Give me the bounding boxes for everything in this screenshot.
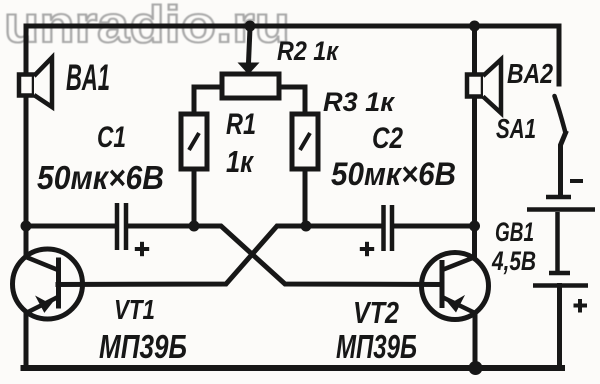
wire: R1 bottom lead (192, 169, 197, 226)
wire: C1 to R1-bottom node (129, 224, 195, 229)
wire: BA2 vertical (top rail to VT2 collector) (472, 26, 477, 257)
node: R1 bottom (189, 221, 200, 232)
battery plus sign (574, 299, 588, 313)
node: R3 bottom (301, 221, 312, 232)
svg-text:BA1: BA1 (66, 57, 110, 98)
svg-text:МП39Б: МП39Б (99, 328, 187, 365)
switch SA1 lever (555, 96, 566, 196)
transistor VT1 (13, 249, 83, 319)
svg-text:50мк×6В: 50мк×6В (331, 156, 456, 192)
capacitor C2 plus sign (360, 242, 374, 256)
resistor R1 body (181, 114, 207, 169)
wire: mid-left from rail to C1 (26, 224, 114, 229)
svg-text:SA1: SA1 (496, 113, 536, 144)
wire: battery positive riser to bottom rail (557, 286, 562, 369)
svg-text:C2: C2 (372, 122, 403, 155)
transistor VT2 (422, 253, 489, 320)
svg-text:VT2: VT2 (353, 295, 399, 330)
svg-text:4,5B: 4,5B (491, 246, 536, 276)
svg-text:R1: R1 (226, 108, 256, 141)
node: top rail to R2 wiper (245, 21, 256, 32)
resistor R3 body (292, 114, 318, 169)
svg-text:GB1: GB1 (495, 217, 534, 247)
node: left rail / C1 (21, 221, 32, 232)
wire: bottom rail (24, 365, 563, 371)
wire: R3-bottom node diagonal to VT1 base (58, 226, 306, 285)
potentiometer R2 wiper arrowhead (238, 63, 260, 75)
wire: R2 wiper stem from top rail (249, 28, 251, 63)
wire: R2 right lead down to R3 (279, 87, 305, 114)
svg-text:R3 1к: R3 1к (323, 87, 395, 117)
potentiometer R2 body (222, 74, 279, 98)
wire: C2 to BA2/VT2-collector rail (394, 224, 475, 229)
wire: R2 left lead down to R1 (194, 87, 222, 114)
speaker BA1 (19, 58, 52, 108)
speaker BA2 (467, 60, 501, 114)
svg-text:C1: C1 (97, 121, 126, 154)
node: VT2 emitter / bottom rail (469, 361, 483, 375)
svg-text:МП39Б: МП39Б (336, 328, 417, 365)
wire: VT2 emitter drop to bottom rail (473, 313, 478, 368)
wire: left rail + top rail + right drop to switch (26, 26, 559, 257)
wire: R1-bottom node diagonal to VT2 base (194, 226, 442, 285)
capacitor C1 plates (117, 203, 126, 250)
battery GB1 plates (527, 197, 595, 286)
svg-text:BA2: BA2 (507, 58, 553, 89)
svg-text:50мк×6В: 50мк×6В (37, 159, 164, 196)
capacitor C1 plus sign (135, 242, 149, 256)
capacitor C2 plates (384, 205, 393, 251)
battery minus sign (570, 179, 583, 183)
svg-text:1к: 1к (226, 144, 254, 179)
svg-text:VT1: VT1 (114, 294, 155, 325)
node: top rail to BA2 branch (469, 21, 480, 32)
wire: R3 bottom lead (303, 169, 308, 226)
wire: VT1 emitter drop to bottom rail (24, 313, 29, 368)
svg-text:R2 1к: R2 1к (277, 36, 339, 66)
node: C2 / BA2 rail (469, 221, 480, 232)
wire: R3-bottom node to C2 (306, 224, 379, 229)
